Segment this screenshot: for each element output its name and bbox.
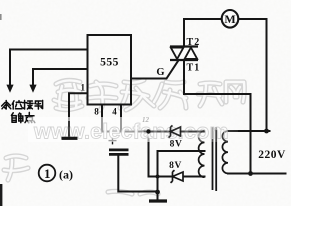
watermark text (decorative, on top) [28, 117, 238, 142]
wire: contact A from pin 6 to probe [10, 50, 88, 86]
wire: lower rectifier branch [149, 176, 205, 178]
triac V1 [170, 47, 198, 61]
transformer T primary winding [222, 131, 228, 173]
svg-text:1: 1 [80, 83, 85, 93]
svg-text:1: 1 [44, 166, 51, 181]
svg-text:8V: 8V [170, 140, 183, 150]
wire: pin 4 stub [120, 105, 122, 132]
label 水位控制 (water level control) [2, 100, 43, 109]
wire: contact B from pin 2 to probe [33, 69, 88, 86]
svg-text:(a): (a) [59, 168, 73, 182]
node: mains bottom junction [248, 171, 253, 176]
wire: center tap to ground [158, 151, 205, 200]
wire: rectifier output rail (over watermark) [144, 131, 205, 133]
node: bottom branch crossing [156, 175, 160, 179]
svg-text:555: 555 [100, 57, 119, 69]
figure label (1)(a) [39, 165, 73, 182]
transformer T secondary winding [199, 131, 205, 177]
svg-text:4: 4 [112, 107, 117, 117]
wire: triac T1 to mains [184, 61, 251, 174]
label 触点 (contact) [11, 112, 34, 122]
motor M [222, 10, 239, 28]
IC U1 555 timer box [88, 35, 132, 105]
svg-text:8V: 8V [169, 161, 182, 171]
wire: motor to mains vertical [239, 19, 266, 131]
node: rectifier output junction [146, 129, 150, 133]
capacitor C1 electrolytic [109, 137, 129, 155]
svg-text:M: M [224, 12, 235, 26]
svg-text:G: G [156, 67, 164, 78]
svg-text:8: 8 [94, 107, 99, 117]
wire: mains bottom line [228, 173, 286, 175]
zener D2 8V [171, 170, 184, 183]
ground (center tap) [149, 190, 167, 201]
wire: Vcc rail to rectifier node [102, 131, 205, 133]
wire: mains top line [228, 130, 270, 132]
ground (pin 1) [62, 121, 78, 138]
transformer core [213, 127, 217, 191]
probe arrow A (water level contact) [6, 85, 13, 93]
svg-text:T1: T1 [187, 63, 201, 74]
wire: gate drive from pin 3 [131, 61, 178, 79]
node: mains top junction [264, 129, 269, 134]
wire: pin 8 stub [101, 105, 103, 132]
wire: triac T2 to motor [184, 19, 221, 47]
wire: capacitor bottom to ground node [118, 156, 157, 192]
svg-text:220V: 220V [258, 149, 286, 161]
zener D1 8V [169, 125, 181, 137]
probe arrow B (water level contact) [29, 85, 36, 93]
wire: pin 1 to ground [69, 93, 88, 136]
svg-text:T2: T2 [187, 37, 201, 48]
wire: rectifier output vertical [148, 132, 150, 177]
